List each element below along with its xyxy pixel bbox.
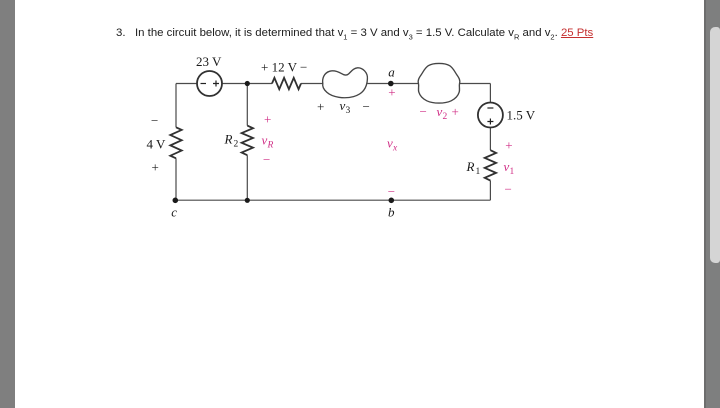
svg-text:1.5 V: 1.5 V [507,108,536,123]
svg-text:+: + [317,99,324,114]
svg-text:+: + [152,160,159,175]
svg-text:−: − [151,113,158,128]
svg-text:+: + [452,104,459,119]
svg-text:+: + [388,85,395,100]
svg-text:2: 2 [234,140,239,150]
svg-text:−: − [388,184,395,199]
svg-text:3: 3 [346,106,351,116]
svg-text:−: − [363,99,370,114]
svg-text:c: c [171,205,177,220]
svg-text:+ 12 V −: + 12 V − [261,59,307,74]
svg-text:2: 2 [443,112,448,122]
svg-text:+: + [505,138,512,153]
svg-text:1: 1 [510,167,515,177]
svg-text:23 V: 23 V [196,54,222,69]
svg-text:a: a [388,65,395,80]
svg-text:1: 1 [476,167,481,177]
svg-text:4 V: 4 V [147,137,167,152]
svg-text:−: − [420,104,427,119]
svg-text:x: x [392,143,398,153]
svg-text:R: R [224,132,233,147]
svg-text:R: R [267,141,274,151]
svg-text:b: b [388,205,395,220]
svg-text:+: + [264,111,271,126]
svg-text:−: − [263,152,270,167]
svg-text:−: − [505,182,512,197]
svg-text:R: R [466,159,475,174]
